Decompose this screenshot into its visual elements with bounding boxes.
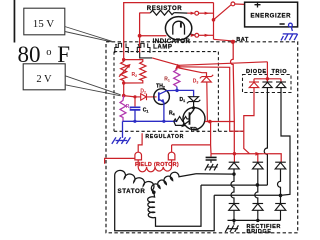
stator winding 3 (down): [148, 192, 156, 217]
wire: BAT feed down to rectifier output rail (red, hops trio feed line): [231, 42, 235, 154]
energizer (battery): [245, 2, 298, 27]
wire: field node down to brush and output rail: [172, 122, 211, 154]
svg-text:REGULATOR: REGULATOR: [145, 134, 184, 140]
wire: trio feed (red): [254, 62, 281, 82]
resistor R3: [120, 96, 126, 122]
regulator ground (blue): [112, 121, 131, 144]
wire: junction to BAT sense branch: [179, 67, 244, 131]
transistor TR1: [174, 108, 205, 133]
wire: left brush to regulator: [138, 133, 142, 152]
wire: winding3 to AC riser: [156, 185, 202, 226]
wire: tap to D2 and C1: [124, 96, 135, 97]
node: stator Y center: [152, 191, 156, 195]
frame fragment (left edge line): [14, 0, 16, 43]
capacitor C1: [130, 97, 149, 121]
rectifier ground symbol: [225, 220, 238, 232]
svg-text:DIODE: DIODE: [246, 69, 267, 75]
rectifier ground rail: [228, 219, 281, 221]
svg-text:FIELD (ROTOR): FIELD (ROTOR): [135, 162, 179, 168]
wire: column 1 vertical (hops AC lines): [231, 169, 234, 204]
node: D1 / TR1 collector: [192, 106, 195, 109]
node: BAT terminal: [231, 40, 235, 44]
switch arrowheads: [191, 12, 196, 15]
svg-text:STATOR: STATOR: [117, 188, 145, 195]
field brush left: [135, 152, 142, 160]
node: lamp branch / No.1 terminal junction: [138, 34, 142, 38]
rectifier output rail (red): [211, 154, 281, 162]
node: fan junction with arrow: [175, 64, 181, 70]
connector terminal No.1 (castellated): [137, 43, 150, 53]
red stubs rail to diode cathodes: [234, 154, 257, 162]
stator winding 1 (upper left): [115, 170, 154, 192]
rectifier top diode column 2: [253, 162, 264, 169]
wire: column 3 vertical (hops AC1, joins AC2): [278, 169, 281, 204]
resistor R1: [174, 66, 180, 86]
node: C1 on rail: [133, 120, 136, 123]
trio diode 1 (red): [249, 82, 259, 88]
wire: No.1 terminal into regulator: [140, 53, 153, 58]
wire: R2 bottom to divider tap: [123, 83, 125, 96]
wire: TR1 to field output node: [205, 121, 210, 123]
callout box 2 V: [23, 64, 120, 96]
diode D2: [137, 94, 157, 101]
wire: trio output 3 down and around to column 3: [281, 88, 291, 196]
svg-text:BRIDGE: BRIDGE: [247, 229, 272, 235]
node: AC line 2 on column 3: [279, 194, 283, 198]
rectifier bottom diode column 3: [275, 204, 286, 221]
capacitor C2: [205, 154, 218, 171]
node: top of R2 divider: [122, 58, 125, 61]
node: BAT column joins rail: [233, 152, 236, 155]
zener diode D1: [177, 90, 200, 108]
svg-text:80 o F: 80 o F: [18, 42, 71, 67]
svg-text:LAMP: LAMP: [153, 43, 172, 50]
zener diode D3: [200, 75, 213, 122]
transistor TH2: [154, 84, 177, 122]
node: field output: [208, 120, 212, 124]
wire: top feed from No.2 terminal to switch: [124, 3, 214, 60]
node: divider tap (2V point): [122, 94, 126, 98]
rectifier top diode column 1: [229, 162, 240, 169]
wire: trio red output down to regulator/rail: [244, 88, 254, 154]
callout box 15 V: [24, 8, 112, 42]
rectifier bottom diode column 2: [253, 204, 264, 221]
diode trio dashed box: [243, 75, 292, 93]
wire: AC line 1 to rectifier column 2: [201, 184, 267, 186]
svg-text:2 V: 2 V: [36, 74, 52, 85]
node: AC line 1 on column 2: [256, 183, 260, 187]
field brush right: [168, 152, 175, 160]
wire: AC line 2 to rectifier column 3: [214, 194, 280, 196]
svg-text:ENERGIZER: ENERGIZER: [251, 12, 292, 19]
node: winding2 to column 1: [232, 172, 235, 175]
connector terminal No.2 (castellated): [115, 43, 129, 53]
wire: winding1 down and along bottom to AC riser: [115, 179, 215, 231]
regulator dashed box: [114, 52, 243, 132]
resistor RESISTOR (indicator lamp shunt): [147, 5, 188, 15]
svg-text:TRIO: TRIO: [272, 69, 288, 75]
rectifier bottom diode column 1: [229, 204, 240, 221]
indicator lamp: [153, 17, 195, 51]
node: TH2 emitter on rail: [162, 120, 165, 123]
node: TH2 collector / R1 bottom: [175, 89, 178, 92]
svg-text:15 V: 15 V: [33, 18, 55, 30]
node: column 2 on ground rail: [256, 219, 259, 222]
wire: right brush up: [171, 145, 173, 152]
resistor R2 (adjustable, parallel pair): [119, 60, 146, 83]
svg-text:BAT: BAT: [236, 37, 249, 43]
wire: junction to diode trio feed: [179, 62, 268, 66]
node: switch blade pivot: [212, 18, 216, 22]
wire: junction to D3: [179, 68, 207, 77]
svg-text:1: 1: [138, 44, 140, 48]
wire: field node to BAT column: [210, 121, 234, 123]
ignition switch: contact rings, arrows, bus and blade: [187, 2, 248, 41]
stator winding 2 (upper right): [151, 172, 196, 192]
svg-text:RESISTOR: RESISTOR: [147, 5, 182, 12]
node: trio feed junction: [266, 77, 269, 80]
trio diode 2: [262, 82, 272, 88]
rectifier top diode column 3: [275, 162, 286, 169]
alternator outer dashed box: [106, 42, 298, 233]
energizer ground (blue): [281, 23, 298, 40]
resistor R4: [174, 117, 190, 122]
node: column 1 on ground rail: [232, 219, 235, 222]
current arrow on rail: [255, 152, 260, 156]
wire: grounded test tab: [105, 158, 135, 163]
wire: trio output 2 down (black, hops rail): [264, 88, 267, 186]
node: R2 bottom: [122, 81, 125, 84]
wire: winding2 AC line to rectifier column 1: [196, 173, 234, 175]
wire: column 2 vertical (joins AC1, hops AC2): [255, 169, 258, 204]
svg-text:2: 2: [115, 44, 117, 48]
field (rotor) coil: [138, 160, 171, 172]
ground rail (blue) of regulator: [123, 120, 178, 122]
trio diode 3: [276, 82, 286, 88]
